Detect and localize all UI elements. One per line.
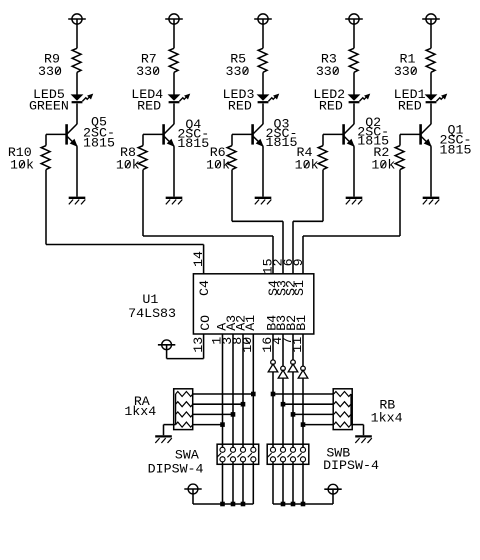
svg-text:1815: 1815 [440, 142, 472, 157]
svg-text:RED: RED [137, 99, 161, 114]
svg-text:1815: 1815 [177, 136, 209, 151]
svg-text:DIPSW-4: DIPSW-4 [148, 462, 204, 477]
svg-text:CO: CO [198, 315, 213, 331]
svg-text:C4: C4 [197, 280, 212, 296]
svg-text:RED: RED [398, 99, 422, 114]
svg-text:330: 330 [316, 64, 340, 79]
svg-text:330: 330 [226, 64, 250, 79]
svg-text:9: 9 [291, 258, 306, 266]
svg-text:SWA: SWA [175, 448, 199, 463]
svg-text:DIPSW-4: DIPSW-4 [323, 458, 379, 473]
svg-text:1kx4: 1kx4 [124, 404, 156, 419]
svg-text:14: 14 [191, 251, 206, 267]
svg-text:GREEN: GREEN [29, 99, 69, 114]
svg-text:330: 330 [394, 64, 418, 79]
svg-text:U1: U1 [142, 292, 158, 307]
svg-text:330: 330 [136, 64, 160, 79]
svg-text:74LS83: 74LS83 [128, 306, 176, 321]
svg-text:B1: B1 [294, 315, 309, 331]
svg-text:RED: RED [228, 99, 252, 114]
svg-text:330: 330 [38, 64, 62, 79]
svg-text:A1: A1 [243, 315, 258, 331]
svg-text:S1: S1 [292, 280, 307, 296]
svg-text:RED: RED [319, 99, 343, 114]
svg-text:1kx4: 1kx4 [371, 410, 403, 425]
svg-text:1815: 1815 [83, 135, 115, 150]
svg-text:1815: 1815 [266, 135, 298, 150]
